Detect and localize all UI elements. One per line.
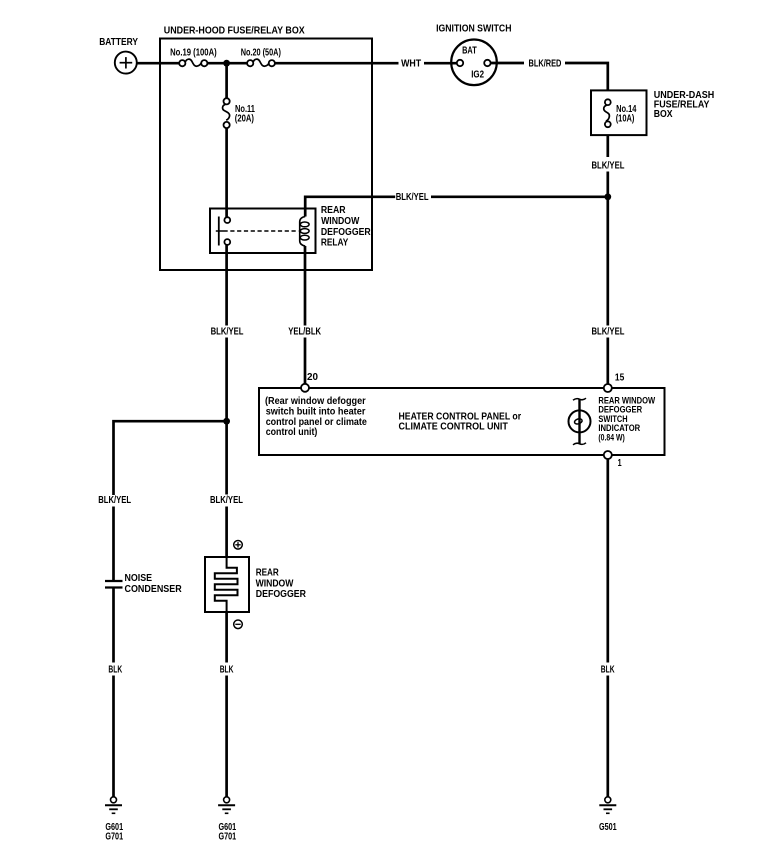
svg-text:BAT: BAT — [462, 46, 477, 57]
svg-text:REAR: REAR — [321, 205, 346, 216]
defogger grid element — [215, 557, 238, 612]
fuse No.14 — [604, 99, 611, 127]
under-hood fuse/relay box — [160, 39, 372, 271]
ground G601/G701 left — [105, 797, 122, 814]
heater control panel box — [259, 388, 665, 455]
relay switch terminals — [224, 217, 230, 223]
fuse No.20 — [247, 59, 275, 66]
svg-text:BLK/YEL: BLK/YEL — [210, 495, 243, 506]
terminal 15 — [604, 384, 612, 392]
svg-text:BLK/YEL: BLK/YEL — [592, 327, 625, 338]
svg-text:BLK/YEL: BLK/YEL — [98, 495, 131, 506]
terminal 1 — [604, 451, 612, 459]
battery — [115, 52, 137, 74]
svg-text:BATTERY: BATTERY — [99, 37, 138, 48]
wire under-dash box to BLK/YEL gap — [606, 135, 609, 157]
relay switch bar — [218, 217, 220, 246]
defogger minus terminal — [234, 620, 243, 629]
svg-text:CONDENSER: CONDENSER — [125, 584, 183, 595]
svg-text:No.20 (50A): No.20 (50A) — [241, 47, 281, 58]
junction node C — [223, 418, 230, 425]
wire battery to fuse box — [137, 62, 180, 65]
wire WHT to ignition switch — [424, 62, 457, 65]
svg-text:WHT: WHT — [401, 59, 422, 70]
wire defogger to BLK gap — [225, 612, 228, 663]
wire terminal 1 to BLK gap — [606, 459, 609, 663]
wire IG2 to BLK/RED gap — [491, 62, 524, 65]
wire BLK/YEL to junction C — [225, 338, 228, 495]
svg-text:20: 20 — [307, 372, 318, 383]
rear window defogger box — [205, 557, 249, 612]
wire condenser to BLK gap — [112, 588, 115, 663]
wire BLK/YEL to heater panel terminal 15 — [606, 172, 609, 326]
svg-text:BLK/YEL: BLK/YEL — [211, 327, 244, 338]
wire BLK/RED to corner and down to under-dash box — [565, 63, 608, 90]
svg-text:DEFOGGER: DEFOGGER — [321, 227, 371, 238]
wire BLK/YEL label gap to defogger — [225, 507, 228, 558]
relay switch tick — [216, 230, 224, 232]
relay coil — [300, 217, 309, 247]
svg-text:BOX: BOX — [654, 109, 673, 120]
wire relay coil to BLK/YEL horizontal — [305, 197, 395, 217]
svg-text:(0.84 W): (0.84 W) — [598, 433, 624, 443]
svg-text:WINDOW: WINDOW — [321, 216, 360, 227]
svg-text:No.19 (100A): No.19 (100A) — [170, 47, 217, 58]
relay dashed link — [224, 230, 299, 232]
wire relay switch to BLK/YEL gap (left) — [225, 245, 228, 326]
svg-text:G701: G701 — [219, 831, 237, 842]
svg-text:1: 1 — [618, 458, 622, 469]
svg-text:BLK/YEL: BLK/YEL — [592, 161, 625, 172]
noise condenser — [105, 581, 123, 588]
svg-text:BLK/YEL: BLK/YEL — [396, 192, 429, 203]
svg-text:G701: G701 — [105, 831, 123, 842]
wire BLK to ground G601 left — [112, 676, 115, 798]
svg-text:YEL/BLK: YEL/BLK — [288, 327, 321, 338]
svg-text:IG2: IG2 — [471, 70, 484, 81]
defogger plus terminal — [234, 541, 243, 550]
svg-text:CLIMATE CONTROL UNIT: CLIMATE CONTROL UNIT — [399, 422, 509, 433]
fuse No.19 — [179, 59, 207, 66]
svg-text:NOISE: NOISE — [125, 573, 153, 584]
ignition switch — [451, 40, 497, 86]
wire fuse No.11 to relay — [225, 128, 228, 217]
wire BLK to ground G601 middle — [225, 676, 228, 798]
svg-text:DEFOGGER: DEFOGGER — [256, 589, 307, 600]
terminal 20 — [301, 384, 309, 392]
junction node B — [604, 193, 611, 200]
svg-text:(20A): (20A) — [235, 113, 254, 124]
wire YEL/BLK to terminal 20 — [304, 338, 307, 385]
indicator bulb — [569, 398, 591, 445]
ground G501 — [599, 797, 616, 814]
wire fuse19 to fuse20 — [207, 62, 247, 65]
wire fuse20 to WHT gap — [275, 62, 399, 65]
wire BLK/YEL horizontal to junction — [431, 195, 608, 198]
svg-text:(Rear window defogger: (Rear window defogger — [265, 396, 366, 407]
svg-text:RELAY: RELAY — [321, 238, 349, 249]
svg-text:REAR: REAR — [256, 568, 280, 579]
ground G601/G701 middle — [218, 797, 235, 814]
wire junction to fuse No.11 — [225, 63, 228, 98]
svg-text:(10A): (10A) — [616, 114, 635, 125]
svg-text:BLK: BLK — [220, 664, 234, 675]
under-dash fuse/relay box — [591, 90, 647, 135]
svg-text:G501: G501 — [599, 822, 617, 833]
svg-text:IGNITION SWITCH: IGNITION SWITCH — [436, 24, 511, 35]
svg-text:WINDOW: WINDOW — [256, 578, 294, 589]
relay box — [210, 209, 316, 254]
wire junction C to noise condenser — [114, 421, 227, 495]
junction node A — [223, 60, 230, 67]
svg-text:BLK: BLK — [108, 664, 122, 675]
wire BLK to ground G501 — [606, 676, 609, 798]
fuse No.11 — [223, 98, 230, 128]
wire BLK/YEL to condenser — [112, 507, 115, 582]
svg-text:BLK/RED: BLK/RED — [529, 59, 562, 70]
svg-text:BLK: BLK — [601, 664, 615, 675]
wire relay coil to YEL/BLK gap — [304, 246, 307, 326]
wire to terminal 15 — [606, 338, 609, 385]
svg-text:UNDER-HOOD FUSE/RELAY BOX: UNDER-HOOD FUSE/RELAY BOX — [164, 26, 305, 37]
svg-text:control unit): control unit) — [266, 427, 318, 438]
svg-text:15: 15 — [615, 373, 625, 384]
